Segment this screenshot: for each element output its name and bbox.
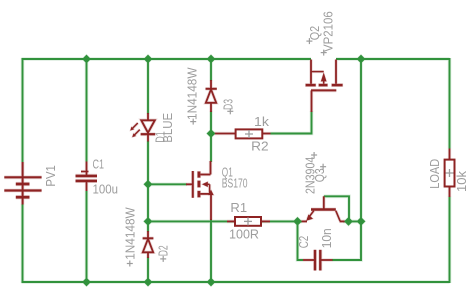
svg-text:BS170: BS170 <box>222 176 248 190</box>
resistor LOAD <box>445 149 455 198</box>
battery PV1 <box>4 162 41 205</box>
wire C2 left to node <box>298 221 304 260</box>
junction top Q2 drain <box>357 55 366 64</box>
svg-text:C2: C2 <box>297 236 311 249</box>
wire Q3 base loop <box>324 196 349 221</box>
wire bottom rail <box>22 281 450 283</box>
cross Q3 value origin <box>311 152 317 158</box>
svg-text:10n: 10n <box>320 228 334 248</box>
svg-text:100u: 100u <box>93 183 119 197</box>
svg-text:R2: R2 <box>251 140 269 154</box>
cross Q2 value origin <box>321 50 327 56</box>
wire top rail left <box>22 58 312 60</box>
junction bottom Q1 <box>207 278 216 287</box>
wire node to C2 right <box>332 221 361 260</box>
svg-text:C1: C1 <box>93 158 105 172</box>
cross D2 value origin <box>127 261 133 267</box>
wire C1 rail lower <box>86 191 88 282</box>
junction gate tap <box>144 180 153 189</box>
junction Q3 collector node <box>344 217 353 226</box>
junction drain node <box>357 217 366 226</box>
resistor R2 <box>212 129 271 138</box>
cross D3 value origin <box>190 119 196 125</box>
svg-text:D3: D3 <box>221 99 235 110</box>
wire Q2 drain node down <box>360 59 362 221</box>
diode D2 <box>143 231 154 258</box>
svg-text:1N4148W: 1N4148W <box>186 67 200 120</box>
svg-text:1N4148W: 1N4148W <box>124 207 138 260</box>
wire D1 rail upper <box>147 59 149 114</box>
cross Q2 name origin <box>306 38 312 44</box>
wire D3 to R2 node <box>210 111 212 134</box>
svg-text:1k: 1k <box>254 115 270 129</box>
LED D1 <box>130 113 155 142</box>
junction D2 tap <box>144 217 153 226</box>
mosfet Q2 VP2106 <box>306 60 343 113</box>
wire D2 rail lower <box>147 257 149 282</box>
cross D3 name origin <box>227 108 233 114</box>
wire Q1 gate <box>148 183 187 185</box>
junction C2 left node <box>293 217 302 226</box>
wire Q3 collector row <box>343 220 361 222</box>
cross LOAD origin <box>446 169 454 177</box>
junction bottom C1 <box>82 278 91 287</box>
svg-text:BLUE: BLUE <box>161 113 175 143</box>
svg-text:R1: R1 <box>230 201 247 215</box>
svg-text:VP2106: VP2106 <box>322 11 336 52</box>
wire left rail upper <box>22 58 24 162</box>
resistor R1 <box>227 217 270 226</box>
wire LOAD rail upper <box>449 58 451 149</box>
wire top rail right <box>336 58 450 60</box>
wire R2 to Q2 gate <box>271 111 312 134</box>
cross Q3 name origin <box>320 164 326 170</box>
capacitor C1 <box>76 162 98 192</box>
svg-text:LOAD: LOAD <box>428 159 442 189</box>
wire D3 rail top <box>210 59 212 81</box>
transistor Q3 2N3904 <box>302 196 346 221</box>
junction D3-R2 <box>207 129 216 138</box>
capacitor C2 <box>303 250 333 271</box>
wire left rail lower <box>22 204 24 283</box>
cross R1 origin <box>244 217 252 225</box>
wire Q1 drain <box>210 134 212 163</box>
mosfet Q1 BS170 <box>186 161 214 220</box>
svg-text:Q2: Q2 <box>308 26 322 40</box>
wire D1-D2 rail middle <box>147 141 149 232</box>
svg-text:100R: 100R <box>229 228 259 242</box>
junction bottom D2 <box>144 278 153 287</box>
junction top C1 <box>82 55 91 64</box>
wire C1 rail upper <box>86 59 88 162</box>
soft halo layer <box>4 55 454 287</box>
wire LOAD rail lower <box>449 197 451 284</box>
wire Q1 source rail <box>210 219 212 282</box>
diode D3 <box>206 80 217 112</box>
wire R1 to Q3 emitter <box>261 220 302 222</box>
svg-text:PV1: PV1 <box>44 165 58 186</box>
wire row to R1 <box>148 220 235 222</box>
cross D2 name origin <box>160 256 166 262</box>
svg-text:Q3: Q3 <box>313 168 327 182</box>
svg-text:10k: 10k <box>455 170 469 192</box>
svg-text:D2: D2 <box>156 245 170 256</box>
junction top D3 <box>207 55 216 64</box>
cross R2 origin <box>245 130 253 138</box>
junction top D1 <box>144 55 153 64</box>
